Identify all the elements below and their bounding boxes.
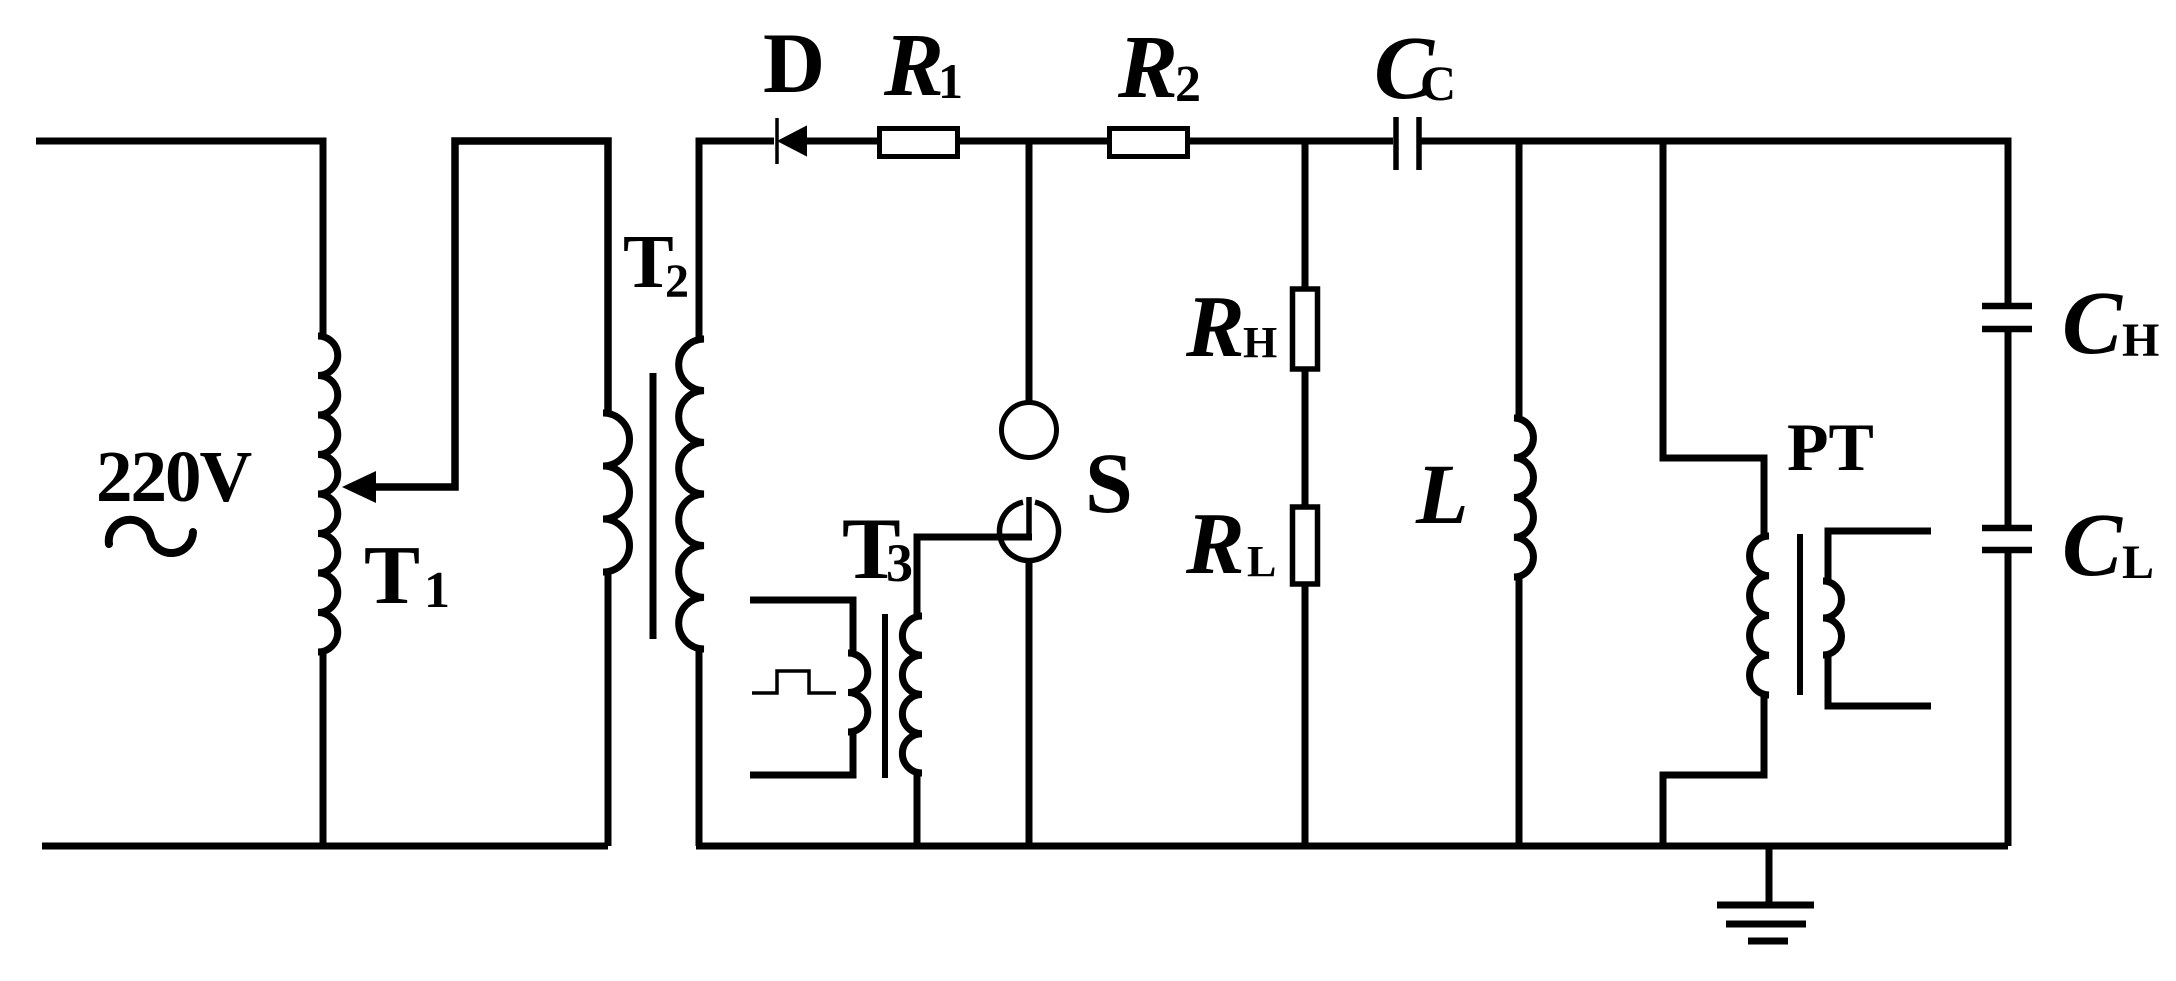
wire: T1 tap riser to T2 primary [374,141,608,487]
svg-text:3: 3 [886,533,913,593]
svg-text:H: H [1243,318,1277,367]
wire: bottom rail (earthed side) [696,843,2008,850]
wire: CL lower lead [2005,550,2012,846]
wire: T3 secondary lower lead [914,773,921,846]
transformer T2 secondary winding [679,339,704,649]
svg-text:T: T [364,529,420,622]
svg-text:L: L [1415,446,1469,542]
transformer T2 primary winding [603,413,630,572]
svg-text:220V: 220V [96,436,252,517]
switch S trigger pin [1026,497,1032,534]
wire: T1 lower lead [320,652,327,846]
capacitor Cc left plate [1393,117,1399,170]
transformer PT core [1797,534,1803,695]
wire: diode to R1 [806,138,880,145]
transformer T3 primary winding [848,653,868,732]
wire: RL lower lead [1302,584,1309,846]
wire: T3 primary upper lead [750,600,853,653]
capacitor Cc right plate [1416,117,1422,170]
resistor R2 body [1110,129,1188,157]
wire: L lower lead [1516,577,1523,846]
diode D triangle [779,127,806,155]
transformer T3 secondary winding [902,616,922,773]
switch S lower sphere electrode [1000,502,1059,560]
transformer PT primary winding [1750,536,1769,695]
transformer T1 winding (autotransformer) [318,336,338,652]
wire: PT secondary lower terminal [1828,655,1931,706]
ground symbol bar 2 [1726,921,1806,928]
svg-text:2: 2 [1175,56,1201,113]
diode D cathode bar [775,118,779,164]
wire: PT primary lower lead [1663,695,1764,846]
wire: T3 secondary upper lead to switch S [917,537,1032,616]
capacitor CH top plate [1982,303,2032,310]
wire: T2 secondary lower lead [696,649,703,846]
svg-text:R: R [1185,279,1245,376]
resistor R1 body [880,129,958,157]
svg-text:L: L [1247,537,1276,586]
wire: CH to CL [2005,329,2012,525]
capacitor CH bottom plate [1982,326,2032,333]
wire: AC source bottom rail [42,843,608,850]
AC sine symbol [109,520,193,553]
inductor L winding [1514,418,1533,577]
wire: switch S lower lead to bottom rail [1026,560,1033,846]
wire: top rail Cc to right corner [1419,141,2008,303]
wire: R2 to coupling capacitor Cc [1187,138,1393,145]
svg-text:R: R [1185,496,1245,593]
wire: RH to RL [1302,369,1309,507]
capacitor CL top plate [1982,525,2032,532]
svg-text:S: S [1085,435,1133,531]
transformer T2 core [650,373,657,639]
svg-text:2: 2 [665,255,689,308]
svg-text:1: 1 [424,562,450,619]
svg-text:D: D [763,15,825,111]
switch S upper sphere electrode [1002,403,1057,458]
resistor RL body [1293,507,1318,584]
svg-text:C: C [1420,55,1456,111]
svg-text:L: L [2122,536,2154,589]
wire: AC source top lead to T1 [36,141,323,336]
transformer PT secondary winding [1823,581,1842,655]
ground symbol stem [1766,846,1773,905]
wire: T2 secondary upper lead [699,141,774,339]
ground symbol bar 3 [1748,938,1788,945]
wire: T3 primary lower lead [750,732,853,775]
wire: junction to PT primary upper lead [1663,141,1764,536]
wire: R1 to R2 with S junction [957,138,1109,145]
svg-text:C: C [2062,274,2123,373]
capacitor CL bottom plate [1982,547,2032,554]
wire: junction to inductor L [1516,141,1523,418]
wire: junction to divider RH [1302,141,1309,289]
wire: T2 primary lower lead [605,572,612,846]
svg-text:1: 1 [938,53,963,109]
svg-text:H: H [2122,314,2159,367]
svg-text:R: R [1117,18,1178,117]
svg-text:C: C [2062,496,2123,595]
pulse source symbol [752,671,836,693]
svg-text:PT: PT [1787,409,1874,485]
variac tap arrow head [342,471,376,503]
wire: PT secondary upper terminal [1828,531,1931,581]
resistor RH body [1293,289,1318,369]
svg-text:R: R [883,16,944,115]
ground symbol bar 1 [1717,902,1814,909]
transformer T3 core [882,614,888,778]
wire: junction to switch S upper sphere [1026,141,1033,402]
